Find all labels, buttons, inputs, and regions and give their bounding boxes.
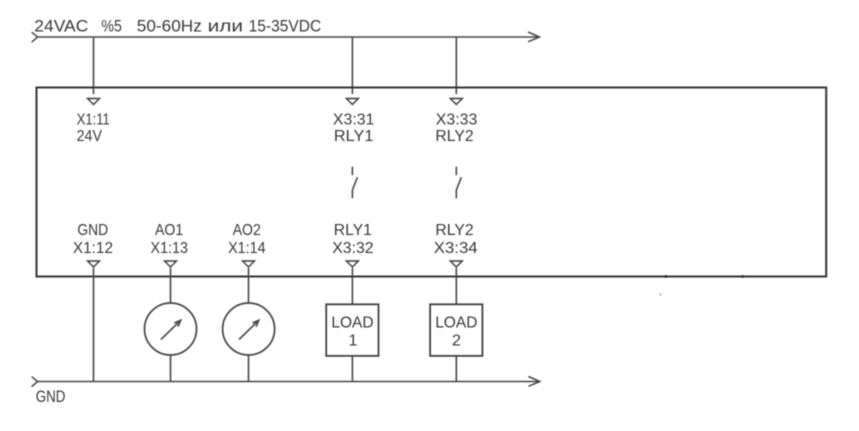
svg-text:50-60Hz: 50-60Hz bbox=[137, 17, 202, 36]
svg-text:RLY1: RLY1 bbox=[334, 128, 374, 145]
wire load2 to gnd line bbox=[455, 356, 457, 382]
wire meter1 to gnd line bbox=[170, 355, 172, 382]
svg-text:X3:32: X3:32 bbox=[332, 240, 374, 257]
svg-text:GND: GND bbox=[36, 388, 66, 406]
wire meter2 to gnd line bbox=[248, 355, 250, 382]
load LOAD1 box bbox=[326, 304, 378, 356]
wire RLY2 to load2 bbox=[455, 268, 457, 304]
terminal X3:33 bbox=[450, 99, 462, 105]
wire drop to X3:31 bbox=[351, 37, 353, 94]
svg-text:или: или bbox=[208, 17, 243, 36]
node gnd line left chevron bbox=[32, 377, 38, 387]
terminal X3:32 bbox=[346, 261, 358, 267]
wire AO2 to meter bbox=[248, 268, 250, 303]
load LOAD2 box bbox=[430, 304, 482, 356]
relay contact K1 bbox=[352, 167, 357, 199]
wire top supply line bbox=[38, 36, 538, 38]
wire drop to X3:33 bbox=[455, 37, 457, 94]
terminal X3:34 bbox=[450, 261, 462, 267]
relay contact K2 bbox=[456, 167, 461, 199]
node gnd line right arrow bbox=[528, 377, 540, 387]
svg-text:24VAC: 24VAC bbox=[34, 17, 88, 36]
speck bbox=[660, 294, 662, 296]
terminal X1:14 bbox=[243, 261, 255, 267]
wire AO1 to meter bbox=[170, 268, 172, 303]
svg-text:RLY1: RLY1 bbox=[334, 222, 372, 239]
wire GND drop bbox=[93, 268, 95, 382]
svg-text:2: 2 bbox=[452, 332, 461, 349]
svg-text:LOAD: LOAD bbox=[435, 315, 477, 332]
wire RLY1 to load1 bbox=[351, 268, 353, 304]
svg-text:X1:13: X1:13 bbox=[151, 240, 189, 257]
svg-text:24V: 24V bbox=[77, 128, 103, 145]
svg-text:GND: GND bbox=[77, 222, 108, 239]
svg-text:X1:11: X1:11 bbox=[77, 112, 110, 129]
svg-text:X3:34: X3:34 bbox=[434, 240, 478, 257]
svg-text:X1:14: X1:14 bbox=[228, 240, 266, 257]
terminal X1:13 bbox=[165, 261, 177, 267]
svg-text:X3:33: X3:33 bbox=[436, 112, 478, 129]
svg-text:RLY2: RLY2 bbox=[435, 128, 473, 145]
svg-text:RLY2: RLY2 bbox=[435, 222, 473, 239]
node dot on box edge 2 bbox=[741, 275, 744, 278]
svg-text:X3:31: X3:31 bbox=[333, 112, 375, 129]
svg-text:X1:12: X1:12 bbox=[73, 240, 113, 257]
meter M2 bbox=[223, 303, 275, 355]
terminal X1:11 bbox=[88, 99, 100, 105]
terminal X1:12 bbox=[88, 261, 100, 267]
svg-text:AO2: AO2 bbox=[233, 222, 261, 239]
node supply line left chevron bbox=[32, 32, 38, 42]
wire bottom GND line bbox=[38, 381, 539, 383]
node supply line right arrow bbox=[528, 32, 540, 42]
svg-text:15-35VDC: 15-35VDC bbox=[249, 17, 322, 36]
svg-text:LOAD: LOAD bbox=[331, 315, 373, 332]
svg-text:1: 1 bbox=[349, 332, 358, 349]
controller outline box bbox=[37, 88, 827, 277]
wire load1 to gnd line bbox=[351, 356, 353, 382]
terminal X3:31 bbox=[346, 99, 358, 105]
wire drop to X1:11 bbox=[93, 37, 95, 94]
svg-text:%5: %5 bbox=[101, 17, 122, 36]
node dot on box edge 1 bbox=[664, 275, 667, 278]
svg-text:AO1: AO1 bbox=[155, 222, 183, 239]
meter M1 bbox=[145, 303, 197, 355]
